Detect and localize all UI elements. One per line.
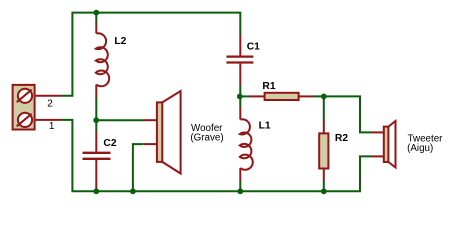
junction node R2 rail — [321, 188, 327, 194]
svg-text:C1: C1 — [247, 41, 260, 52]
svg-text:(Aigu): (Aigu) — [407, 143, 433, 154]
svg-text:L1: L1 — [259, 120, 271, 131]
wire woofer minus to bottom rail — [133, 144, 144, 191]
wire C2 bottom stub — [95, 187, 97, 191]
wire node to C2 top — [95, 120, 97, 132]
wire top rail net: pin2 up, top rail, down to C1 — [61, 13, 240, 96]
inductor L2 — [96, 23, 109, 97]
svg-text:R2: R2 — [335, 133, 348, 144]
capacitor C2 — [83, 132, 111, 188]
terminal block body — [13, 85, 35, 130]
tweeter speaker — [371, 121, 396, 168]
wire R1 right to tweeter plus — [313, 96, 371, 132]
svg-text:(Grave): (Grave) — [190, 133, 223, 144]
junction node L1 rail — [237, 188, 243, 194]
wire R2 bottom to rail — [323, 180, 325, 191]
junction node top rail L2 — [93, 10, 99, 16]
junction node C1 L1 R1 — [237, 94, 243, 100]
wire C1 bottom to node — [239, 85, 241, 97]
resistor R1 — [250, 93, 314, 100]
junction node L2 C2 woofer — [93, 117, 99, 123]
junction node C2 rail — [93, 188, 99, 194]
woofer speaker — [144, 91, 181, 174]
terminal screw 2 — [18, 89, 32, 103]
inductor L1 — [240, 107, 253, 181]
wire L2 top stub from rail — [95, 13, 97, 24]
resistor R2 — [319, 120, 328, 181]
svg-text:2: 2 — [47, 98, 53, 109]
svg-text:R1: R1 — [262, 81, 275, 92]
junction node R1 R2 tweeter — [321, 94, 327, 100]
capacitor C1 — [226, 34, 253, 85]
wire L1 bottom to rail — [239, 181, 241, 192]
wire node to L1 top — [239, 96, 241, 107]
terminal screw 1 — [18, 113, 32, 127]
terminal pin 1 — [36, 119, 61, 121]
wire node to R1 left — [240, 95, 251, 97]
svg-text:L2: L2 — [114, 36, 126, 47]
svg-text:1: 1 — [49, 121, 55, 132]
junction node woofer rail — [130, 188, 136, 194]
terminal pin 2 — [36, 95, 61, 97]
wire L2 bottom to node — [95, 96, 97, 120]
wire node to woofer plus — [96, 119, 144, 121]
wire bottom net: pin1 down, bottom rail, up to tweeter minus — [61, 120, 371, 191]
wire node to R2 top — [323, 96, 325, 119]
svg-text:C2: C2 — [103, 138, 116, 149]
